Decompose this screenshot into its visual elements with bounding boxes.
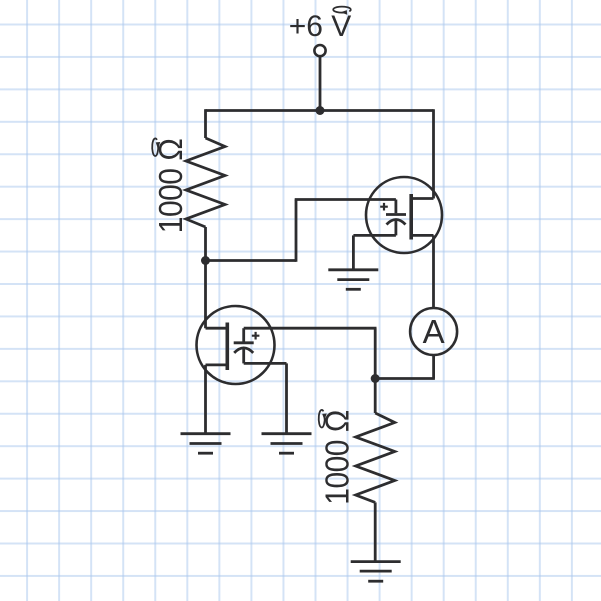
resistor R2 — [356, 413, 395, 502]
transistor M1 gate plate — [386, 200, 406, 236]
wire R1 bottom to node — [204, 227, 207, 261]
wire R2 bottom to ground — [374, 502, 377, 561]
plus polarity mark of M2 — [252, 332, 260, 340]
op-amp-style body circle of M1 — [366, 177, 442, 253]
ground under M2 source — [181, 434, 231, 454]
resistor R1 — [186, 138, 225, 227]
value label 1000 Ω for R1 — [151, 139, 189, 233]
node junction bottom — [371, 374, 380, 383]
wire rail to R1 top — [204, 109, 207, 138]
wire from terminal down to top rail — [319, 56, 322, 110]
knob swirl above R1 ohm — [152, 138, 160, 156]
ground under M1 — [328, 270, 378, 290]
bulk lead of M2 — [244, 362, 287, 365]
terminal of +6V source — [314, 45, 325, 56]
wire node left down from M2 gate — [374, 328, 377, 380]
transistor M2 gate plate — [234, 328, 254, 363]
drain lead of M2 — [206, 327, 227, 330]
value label 1000 Ω for R2 — [318, 410, 356, 504]
op-amp-style body circle of M2 — [197, 306, 275, 384]
node junction left — [201, 256, 210, 265]
ground under M2 bulk — [262, 434, 312, 454]
transistor M2 channel bar — [226, 323, 230, 371]
wire M2 bulk down to ground — [285, 363, 288, 433]
wire ammeter bottom down — [432, 355, 435, 379]
wire node down to R2 — [374, 379, 377, 414]
ammeter A1 — [410, 308, 457, 355]
wire up — [295, 200, 298, 262]
source lead of M1 — [412, 234, 434, 237]
wire top rail — [206, 109, 434, 112]
ground under R2 — [351, 562, 401, 582]
node junction on top rail — [316, 106, 325, 115]
drain lead of M1 — [412, 197, 434, 200]
wire gate of M2 — [244, 327, 377, 330]
svg-text:A: A — [423, 313, 445, 350]
knob swirl above R2 ohm — [319, 410, 327, 428]
wire M2 source down to ground — [204, 365, 207, 434]
voltage source label +6 V — [289, 10, 352, 43]
wire left to node — [375, 377, 435, 380]
wire to gate of M1 — [295, 198, 396, 201]
wire node left to M2 drain from node above — [204, 259, 207, 328]
wire node right toward M1 gate — [204, 259, 296, 262]
wire bulk down — [352, 235, 355, 270]
wire M1 source down to ammeter — [432, 235, 435, 308]
knob swirl above V — [333, 7, 351, 15]
plus polarity mark of M1 — [380, 203, 388, 211]
svg-text:+6 V: +6 V — [289, 10, 352, 43]
bulk lead of M1 to ground — [353, 234, 396, 237]
source lead of M2 — [206, 363, 227, 366]
wire rail down to M1 drain — [432, 109, 435, 198]
transistor M1 channel bar — [409, 194, 413, 240]
